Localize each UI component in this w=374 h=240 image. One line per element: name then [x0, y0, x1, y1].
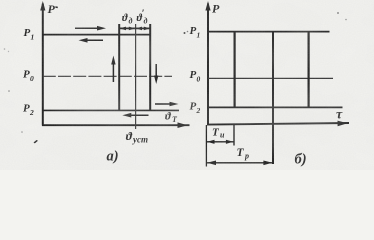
direction arrow left below P1: [84, 39, 103, 41]
jump-down vertical line at v'_d: [149, 24, 151, 110]
waveform falling edge 1: [234, 32, 236, 108]
v_ust reference vertical line: [135, 24, 137, 129]
waveform rising edge (extends to dimension row): [272, 32, 274, 164]
jump-up direction arrow (up): [112, 60, 114, 82]
left vertical axis P: [42, 4, 44, 126]
jump-up vertical line at v_d: [118, 24, 120, 110]
jump-down direction arrow (down): [155, 64, 157, 79]
scan background: [0, 0, 374, 170]
dimension line v_d with arrowheads: [119, 27, 135, 29]
right vertical axis P: [207, 4, 209, 125]
faint scan specks: [55, 6, 58, 8]
right horizontal axis: [207, 123, 349, 125]
level line P0 (right): [208, 77, 333, 79]
level line P1 (right): [208, 31, 330, 33]
left horizontal axis: [42, 124, 190, 126]
level line P1 (left): [43, 34, 151, 36]
left vertical axis arrowhead: [40, 1, 45, 11]
scan cloud mottling: [0, 0, 374, 170]
level line P0 (left, thin dashed): [43, 75, 172, 77]
dimension line v'_d with arrowheads: [136, 27, 151, 29]
left horizontal axis arrowhead: [178, 122, 188, 128]
direction arrow right on P2 branch: [155, 103, 173, 105]
dimension line T_r with arrowheads: [206, 162, 273, 164]
dimension tick at T_i: [233, 125, 235, 146]
paper noise overlay: [0, 0, 374, 170]
right horizontal axis arrowhead: [338, 121, 348, 127]
right vertical axis arrowhead: [205, 1, 210, 11]
dimension tick at origin: [205, 125, 207, 167]
dimension line T_i with arrowheads: [206, 141, 234, 143]
waveform falling edge 2: [308, 32, 310, 108]
direction arrow right above P1: [75, 27, 100, 29]
level line P2 (right): [208, 106, 343, 108]
ink speck: [34, 140, 39, 143]
level line P2 (left): [43, 109, 179, 111]
direction arrow left below P2 branch: [127, 114, 149, 116]
